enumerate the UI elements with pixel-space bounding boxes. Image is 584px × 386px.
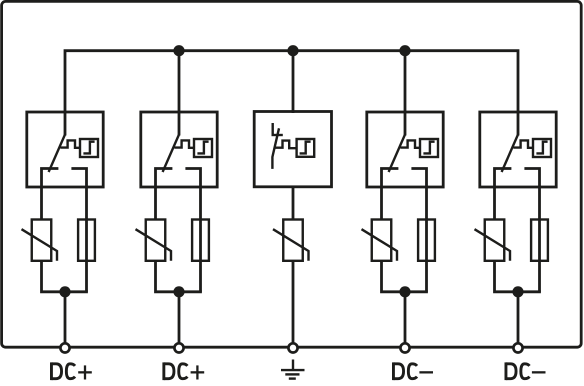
ground symbol bar 1 <box>281 369 305 371</box>
wire into U4 (top lead) <box>404 112 407 136</box>
left contact of U5 <box>495 169 512 220</box>
trip indicator box in U4 <box>420 139 438 157</box>
wire varistor RV2 bottom lead and junction bar branch 2 <box>156 261 202 292</box>
step glyph in trip indicator of U5 <box>536 142 547 154</box>
thermal trip linkage in U5 <box>513 140 533 147</box>
fuse F4 body <box>418 220 435 261</box>
switch arm in U1 <box>49 135 65 173</box>
disconnector box U5 outline <box>480 112 556 187</box>
junction dot branch 2 <box>173 286 184 297</box>
wire branch 5 to terminal <box>517 292 520 348</box>
trip indicator box in U1 <box>80 139 98 157</box>
wire varistor RV4 bottom lead and junction bar branch 4 <box>382 261 428 292</box>
varistor RV3 diagonal with tail <box>273 229 309 261</box>
step glyph in trip indicator of U4 <box>423 142 434 154</box>
junction dot branch 1 <box>59 286 70 297</box>
junction dot on bus at branch 4 <box>399 45 410 56</box>
wire bus drop to box 2 <box>178 51 181 113</box>
fuse F1 body <box>78 220 95 261</box>
ground symbol bar 3 <box>289 377 296 379</box>
label DC+ (branch 2) <box>164 362 204 380</box>
left contact of U1 <box>42 169 59 220</box>
junction dot branch 4 <box>399 286 410 297</box>
wire branch 2 to terminal <box>178 292 181 348</box>
thermal trip linkage in U2 <box>174 140 194 147</box>
junction dot on bus at branch 2 <box>173 45 184 56</box>
switch arm in U2 <box>163 135 179 173</box>
right contact of U1 and series lead through fuse F1 <box>71 169 86 292</box>
right contact of U5 and series lead through fuse F5 <box>524 169 539 292</box>
wire varistor RV5 bottom lead and junction bar branch 5 <box>495 261 541 292</box>
disconnector box U2 outline <box>141 112 217 187</box>
step glyph in trip indicator of U3 <box>300 142 311 154</box>
wire into U1 (top lead) <box>64 112 67 136</box>
wire branch 1 to terminal <box>64 292 67 348</box>
fuse F2 body <box>192 220 209 261</box>
switch arm in U4 <box>389 135 405 173</box>
label DC- (branch 5) <box>506 362 546 380</box>
varistor RV4 diagonal with tail <box>362 229 398 261</box>
junction dot branch 5 <box>512 286 523 297</box>
terminal circle DC+ terminal 1 <box>60 343 69 352</box>
trip indicator box in U3 <box>297 139 315 157</box>
terminal circle DC- terminal 2 <box>513 343 522 352</box>
varistor RV3 body <box>283 220 303 261</box>
fuse F5 body <box>531 220 548 261</box>
trip indicator box in U5 <box>533 139 551 157</box>
wire branch 4 to terminal <box>404 292 407 348</box>
varistor RV4 body <box>372 220 392 261</box>
varistor RV2 body <box>146 220 166 261</box>
varistor RV1 diagonal with tail <box>22 229 58 261</box>
breakaway arm in U3 <box>272 128 279 169</box>
wire varistor RV1 bottom lead and junction bar branch 1 <box>42 261 88 292</box>
left contact of U4 <box>382 169 399 220</box>
wire into U5 (top lead) <box>517 112 520 136</box>
thermal trip linkage in U3 <box>275 141 297 149</box>
right contact of U4 and series lead through fuse F4 <box>411 169 426 292</box>
trip indicator box in U2 <box>194 139 212 157</box>
contact bar in U3 (horizontal tick) <box>272 134 283 136</box>
varistor RV2 diagonal with tail <box>136 229 172 261</box>
varistor RV1 body <box>32 220 52 261</box>
disconnector box U4 outline <box>367 112 443 187</box>
terminal circle DC+ terminal 2 <box>174 343 183 352</box>
terminal circle DC- terminal 1 <box>400 343 409 352</box>
terminal circle earth terminal <box>288 343 297 352</box>
contact post in U3 (vertical tick) <box>272 123 274 135</box>
left contact of U2 <box>156 169 173 220</box>
varistor RV5 body <box>485 220 505 261</box>
varistor RV5 diagonal with tail <box>475 229 511 261</box>
switch arm in U5 <box>502 135 518 173</box>
disconnector box U3 outline <box>254 112 331 187</box>
label DC+ (branch 1) <box>51 362 91 380</box>
wire top bus (common node to disconnector boxes) <box>65 51 518 113</box>
disconnector box U1 outline <box>27 112 103 187</box>
wire into U2 (top lead) <box>178 112 181 136</box>
wire U3 bottom lead to varistor RV3 <box>292 187 295 220</box>
junction dot on bus at branch 3 <box>287 45 298 56</box>
label DC- (branch 4) <box>393 362 433 380</box>
step glyph in trip indicator of U2 <box>197 142 208 154</box>
right contact of U2 and series lead through fuse F2 <box>185 169 200 292</box>
thermal trip linkage in U1 <box>60 140 80 147</box>
thermal trip linkage in U4 <box>400 140 420 147</box>
wire bus drop to box 4 <box>404 51 407 113</box>
wire bus drop to box 3 <box>292 51 295 113</box>
step glyph in trip indicator of U1 <box>83 142 94 154</box>
ground symbol stem <box>292 360 294 371</box>
wire varistor RV3 to earth terminal <box>292 261 295 348</box>
ground symbol bar 2 <box>285 373 299 375</box>
